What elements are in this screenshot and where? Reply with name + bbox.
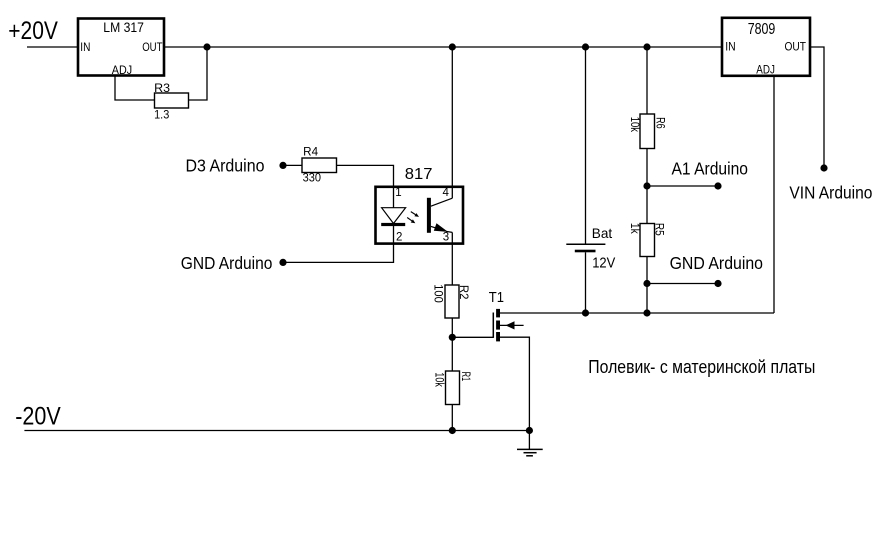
wire opto pin4 to top rail	[451, 47, 453, 198]
svg-text:GND Arduino: GND Arduino	[670, 253, 763, 273]
wire R6 top	[646, 47, 648, 114]
wire source down	[500, 337, 529, 449]
resistor R3 1.3	[154, 83, 188, 121]
svg-text:1: 1	[395, 187, 401, 199]
svg-text:R1: R1	[459, 372, 471, 382]
svg-text:10k: 10k	[628, 117, 640, 133]
node junction top rail x585.5	[582, 43, 589, 50]
svg-text:Полевик- с материнской платы: Полевик- с материнской платы	[588, 357, 815, 377]
svg-text:R6: R6	[654, 117, 666, 129]
node junction top rail x452	[449, 43, 456, 50]
wire bat bottom	[585, 252, 587, 313]
wire +20V to LM317 IN	[27, 46, 77, 48]
light arrow 1	[411, 212, 419, 217]
wire -20V rail	[24, 430, 529, 432]
node A1 Arduino	[714, 182, 721, 189]
wire R2 to gate junction	[451, 318, 453, 371]
svg-text:Bat: Bat	[592, 225, 613, 241]
svg-text:12V: 12V	[592, 255, 615, 271]
node junction R1 rail	[449, 427, 456, 434]
LED D1	[381, 208, 405, 226]
svg-text:7809: 7809	[748, 21, 776, 38]
svg-text:IN: IN	[80, 40, 90, 54]
resistor R4 330	[302, 147, 337, 185]
resistor R6 10k	[628, 114, 666, 149]
svg-text:OUT: OUT	[785, 40, 807, 54]
svg-text:817: 817	[405, 166, 433, 183]
svg-text:4: 4	[443, 187, 450, 199]
svg-text:ADJ: ADJ	[756, 62, 775, 76]
wire top rail OUT to 7809 IN	[165, 46, 721, 48]
wire 7809 ADJ down to drain rail	[773, 77, 775, 313]
svg-text:ADJ: ADJ	[112, 63, 132, 77]
wire D3 to R4	[283, 164, 302, 166]
wire R6 to A1 junction	[646, 149, 648, 224]
wire R5 to GND junction	[646, 257, 648, 314]
regulator U1 LM 317	[78, 19, 164, 77]
svg-text:2: 2	[396, 232, 402, 244]
svg-text:3: 3	[443, 232, 449, 244]
wire A1 stub	[647, 185, 718, 187]
node junction drain-bat	[582, 309, 589, 316]
svg-text:10k: 10k	[433, 372, 445, 387]
svg-text:LM 317: LM 317	[103, 19, 144, 35]
resistor R1 10k	[433, 371, 471, 405]
wire drain rail	[500, 312, 774, 314]
svg-text:T1: T1	[489, 289, 504, 306]
node VIN Arduino	[820, 164, 827, 171]
svg-text:1k: 1k	[628, 223, 640, 234]
light arrow 2	[407, 218, 415, 224]
svg-text:1.3: 1.3	[154, 109, 169, 121]
node junction source rail	[526, 427, 533, 434]
wire opto pin2 to GND Arduino	[283, 226, 394, 262]
node GND Arduino right	[714, 280, 721, 287]
node junction top rail x207	[203, 43, 210, 50]
svg-text:330: 330	[303, 173, 321, 185]
svg-text:IN: IN	[725, 40, 735, 54]
node junction top rail x647	[643, 43, 650, 50]
svg-text:VIN Arduino: VIN Arduino	[789, 182, 872, 202]
wire bat top	[585, 47, 587, 244]
ground	[517, 449, 543, 455]
svg-text:-20V: -20V	[15, 402, 61, 430]
node GND Arduino left	[279, 259, 286, 266]
resistor R5 1k	[628, 223, 664, 257]
resistor R2 100	[431, 284, 469, 318]
svg-text:R2: R2	[457, 285, 469, 300]
svg-text:OUT: OUT	[142, 40, 163, 54]
svg-text:R4: R4	[303, 147, 319, 159]
svg-text:D3 Arduino: D3 Arduino	[186, 155, 265, 175]
svg-text:R5: R5	[653, 223, 665, 236]
regulator U3 7809	[722, 18, 810, 77]
node junction drain-R5	[643, 309, 650, 316]
wire opto pin3 to R2	[451, 232, 453, 285]
wire 7809 OUT to VIN	[811, 47, 824, 168]
node junction gate	[449, 334, 456, 341]
wire R4 to opto pin1	[337, 165, 394, 207]
wire R1 to -20V rail	[451, 405, 453, 431]
wire R3 to junction x207	[189, 47, 208, 100]
svg-text:A1 Arduino: A1 Arduino	[672, 158, 749, 178]
svg-text:+20V: +20V	[8, 17, 58, 45]
wire GND stub	[647, 283, 718, 285]
wire junction to gate	[452, 336, 493, 338]
node junction A1	[643, 182, 650, 189]
svg-text:R3: R3	[154, 83, 170, 95]
node junction GND right	[643, 280, 650, 287]
svg-text:100: 100	[431, 284, 443, 303]
svg-text:GND Arduino: GND Arduino	[181, 253, 273, 273]
wire LM317 ADJ down	[115, 76, 155, 100]
optocoupler box	[376, 187, 464, 244]
transistor Q1 phototransistor	[427, 198, 452, 233]
